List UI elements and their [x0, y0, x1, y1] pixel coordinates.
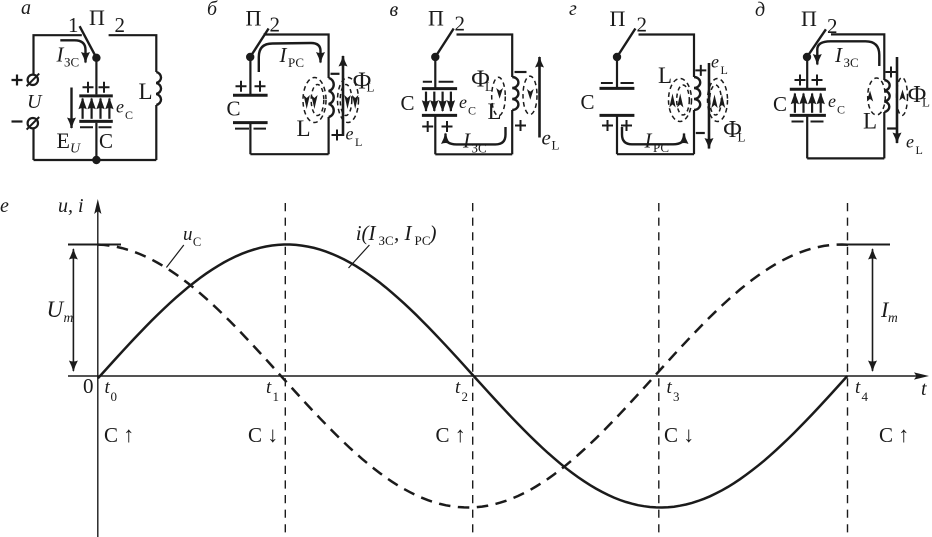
minus charges above top plate	[423, 81, 454, 83]
switch П blade (closed to 2)	[807, 29, 826, 57]
y-axis	[97, 210, 99, 537]
svg-text:e: e	[346, 124, 354, 144]
svg-text:e: e	[459, 92, 467, 112]
svg-text:e: e	[711, 52, 719, 72]
wire right lower	[155, 105, 157, 160]
svg-text:e: e	[116, 97, 124, 117]
svg-text:t: t	[855, 377, 861, 398]
svg-text:П: П	[801, 6, 817, 31]
svg-text:2: 2	[637, 13, 648, 37]
svg-text:L: L	[485, 79, 493, 94]
field arrows inside C (up)	[81, 99, 83, 119]
svg-text:m: m	[64, 310, 74, 325]
inductor L coil	[694, 77, 700, 110]
current curve i (solid sine)	[98, 245, 847, 508]
svg-text:t: t	[921, 378, 927, 400]
svg-text:ЗС: ЗС	[844, 55, 859, 70]
svg-text:РС: РС	[653, 140, 669, 155]
plus at coil top	[886, 67, 897, 78]
emf arrow EU (down)	[70, 88, 72, 129]
svg-text:С: С	[401, 91, 415, 115]
svg-text:Е: Е	[57, 128, 70, 153]
wire top-right (contact 2 to L)	[109, 35, 157, 72]
svg-text:1: 1	[273, 389, 280, 404]
wire capacitor to bottom	[95, 123, 97, 160]
svg-text:0: 0	[83, 374, 94, 398]
current arrow IРС (C up over to L)	[259, 43, 321, 72]
source terminal + (circle with slash)	[28, 75, 38, 85]
bottom junction node	[92, 156, 100, 164]
wire switch to capacitor	[249, 57, 251, 95]
svg-text:L: L	[367, 80, 375, 95]
svg-text:С: С	[193, 235, 201, 249]
svg-text:а: а	[21, 0, 31, 19]
svg-text:m: m	[888, 310, 898, 325]
wire capacitor to bottom	[249, 123, 251, 154]
svg-text:L: L	[139, 79, 153, 104]
svg-text:П: П	[89, 5, 105, 30]
svg-text:д: д	[755, 0, 765, 21]
capacitor C top plate	[79, 94, 113, 97]
svg-text:L: L	[922, 95, 930, 110]
svg-text:U: U	[47, 297, 65, 322]
capacitor C bottom plate	[233, 121, 268, 124]
current arrow IЗС (L back to C)	[817, 41, 879, 66]
plus at coil top	[695, 65, 706, 76]
inductor L coil	[156, 72, 161, 105]
svg-text:e: e	[542, 126, 551, 150]
flux arrows right (up)	[711, 95, 717, 109]
flux arrows left (up)	[669, 94, 675, 108]
svg-text:U: U	[27, 91, 43, 113]
switch П blade (closed to 2)	[435, 29, 453, 58]
Um amplitude tick	[68, 244, 121, 246]
svg-text:РС: РС	[415, 233, 431, 248]
svg-text:I: I	[834, 43, 843, 67]
svg-text:П: П	[610, 6, 626, 31]
source terminal − (circle with slash)	[28, 118, 38, 128]
inductor L coil	[884, 80, 889, 112]
capacitor C bottom plate	[422, 114, 457, 117]
flux ellipse left inner	[311, 85, 324, 116]
switch pivot node	[92, 54, 100, 62]
flux arrows left (down)	[304, 95, 310, 109]
flux ellipse right outer	[338, 78, 359, 123]
flux arrow left (down)	[496, 88, 503, 99]
voltage curve uC (dashed cosine)	[98, 245, 848, 508]
svg-text:е: е	[0, 195, 9, 217]
svg-text:t: t	[667, 377, 673, 398]
flux arrow right (down)	[527, 89, 534, 100]
capacitor C top plate	[790, 88, 826, 91]
capacitor C top plate	[422, 87, 457, 90]
minus at coil bottom	[887, 127, 896, 129]
wire top-left (to contact 1)	[34, 35, 82, 74]
svg-text:0: 0	[111, 389, 118, 404]
flux ellipse right inner	[710, 85, 722, 115]
switch П blade (closed to 2)	[250, 29, 268, 58]
wire right lower	[511, 110, 513, 154]
svg-text:С: С	[125, 108, 133, 122]
uC label pointer	[166, 245, 183, 268]
svg-text:t: t	[455, 377, 461, 398]
flux ellipse right outer	[708, 79, 728, 122]
minus charges above top plate	[601, 82, 634, 84]
minus at coil top	[515, 71, 527, 73]
i label pointer	[349, 245, 370, 268]
svg-text:П: П	[428, 6, 444, 31]
wire capacitor to bottom	[434, 115, 436, 154]
svg-text:С: С	[773, 92, 787, 116]
svg-text:С: С	[837, 103, 845, 117]
minus charges under bottom plate	[792, 121, 824, 123]
svg-text:I: I	[279, 43, 288, 67]
switch П blade	[80, 26, 97, 58]
wire left lower	[32, 129, 34, 160]
flux ellipse left outer	[303, 78, 326, 123]
svg-text:2: 2	[455, 12, 466, 36]
dashed timeline t3	[658, 203, 660, 535]
Im dimension arrow	[872, 249, 874, 310]
plus sign of source	[12, 75, 23, 86]
flux arrow left (up)	[867, 91, 873, 102]
svg-text:L: L	[916, 143, 923, 157]
wire bottom	[34, 159, 157, 161]
dashed timeline t1	[284, 203, 286, 535]
switch pivot node	[431, 53, 439, 61]
capacitor C top plate	[600, 87, 635, 90]
svg-text:L: L	[721, 63, 728, 77]
wire right lower	[693, 110, 695, 154]
capacitor C bottom plate	[600, 114, 635, 117]
flux ellipse right	[523, 76, 537, 114]
dashed timeline t4	[847, 203, 849, 535]
svg-text:L: L	[863, 109, 877, 134]
svg-text:г: г	[569, 0, 577, 20]
svg-text:С: С	[581, 90, 595, 114]
flux ellipse right inner	[340, 85, 352, 116]
flux arrow right (up)	[899, 90, 905, 101]
svg-text:1: 1	[68, 13, 79, 37]
switch pivot node	[803, 53, 811, 61]
switch П blade (closed to 2)	[617, 29, 635, 58]
wire top	[264, 35, 329, 79]
flux arrows right (down)	[344, 95, 350, 109]
capacitor C bottom plate	[790, 114, 826, 117]
plus at coil bottom	[332, 130, 343, 141]
svg-text:): )	[429, 221, 437, 245]
minus charges under bottom plate	[235, 128, 266, 130]
svg-text:2: 2	[115, 13, 126, 37]
wire bottom	[617, 153, 694, 155]
svg-text:e: e	[828, 91, 836, 111]
svg-text:I: I	[644, 129, 653, 153]
svg-text:i(I: i(I	[356, 221, 377, 245]
wire right lower	[883, 112, 885, 158]
svg-text:ЗС: ЗС	[472, 141, 487, 156]
flux ellipse left	[492, 77, 506, 115]
svg-text:ЗС: ЗС	[379, 233, 394, 248]
svg-text:3: 3	[673, 389, 680, 404]
capacitor C top plate	[233, 94, 268, 97]
switch pivot node	[246, 53, 254, 61]
plus charges under bottom plate	[422, 121, 452, 132]
svg-text:2: 2	[462, 389, 469, 404]
wire top	[639, 35, 695, 78]
wire switch to capacitor	[616, 57, 618, 88]
svg-text:ЗС: ЗС	[64, 55, 79, 70]
flux ellipse right	[897, 78, 908, 116]
wire switch to capacitor	[95, 58, 97, 95]
svg-text:П: П	[246, 6, 262, 31]
svg-text:2: 2	[270, 13, 281, 37]
Im amplitude tick	[845, 244, 890, 246]
svg-text:U: U	[70, 142, 81, 157]
capacitor C bottom plate	[79, 120, 113, 123]
wire capacitor to bottom	[806, 115, 808, 158]
svg-text:t: t	[266, 377, 272, 398]
field arrows inside C (up)	[794, 94, 796, 113]
svg-text:u: u	[183, 224, 193, 245]
inductor L coil	[329, 78, 334, 117]
x-axis t	[68, 375, 917, 377]
svg-text:б: б	[207, 0, 218, 20]
emf arrow eL (down)	[708, 63, 711, 149]
wire bottom	[250, 153, 328, 155]
plus charges under bottom plate	[602, 120, 632, 131]
current arrow IРС (C to L)	[622, 127, 684, 144]
emf arrow eL (down)	[896, 57, 899, 143]
wire bottom	[807, 157, 884, 159]
emf arrow eL (up)	[342, 56, 345, 136]
svg-text:I: I	[462, 129, 471, 153]
svg-text:L: L	[297, 116, 311, 141]
plus charges on top plate	[795, 75, 823, 86]
plus charges on top plate	[236, 81, 266, 92]
wire switch to capacitor	[434, 57, 436, 88]
svg-text:С ↑: С ↑	[104, 422, 134, 447]
svg-text:С ↓: С ↓	[664, 422, 694, 447]
svg-text:L: L	[552, 138, 560, 153]
current arrow IЗС (L back to C)	[446, 127, 506, 144]
svg-text:РС: РС	[288, 55, 304, 70]
plus at coil bottom	[515, 120, 526, 131]
flux ellipse left outer	[669, 79, 692, 122]
wire right lower	[328, 117, 330, 154]
plus charges on top plate	[83, 82, 110, 93]
Um dimension arrow	[72, 249, 74, 310]
wire bottom	[435, 153, 512, 155]
svg-text:e: e	[906, 132, 914, 152]
wire top	[457, 35, 513, 78]
switch pivot node	[613, 53, 621, 61]
minus charges under bottom plate	[80, 126, 112, 128]
svg-text:С ↑: С ↑	[879, 422, 909, 447]
current arrow IЗС	[60, 40, 85, 62]
flux ellipse left	[868, 78, 886, 115]
svg-text:С ↑: С ↑	[436, 422, 466, 447]
svg-text:С: С	[99, 129, 113, 153]
svg-text:u, i: u, i	[58, 195, 84, 217]
dashed timeline t2	[472, 203, 474, 535]
wire top	[831, 34, 884, 80]
inductor L coil	[512, 77, 518, 110]
svg-text:, I: , I	[394, 221, 413, 245]
svg-text:С: С	[227, 97, 241, 121]
wire switch to capacitor	[806, 57, 808, 88]
minus sign of source	[12, 120, 23, 122]
svg-text:L: L	[355, 135, 362, 149]
field arrows inside C (down)	[425, 92, 427, 111]
svg-text:в: в	[390, 0, 399, 21]
svg-text:С: С	[468, 104, 476, 118]
svg-text:4: 4	[862, 389, 869, 404]
minus at coil bottom	[696, 132, 705, 134]
svg-text:L: L	[738, 130, 746, 145]
emf arrow eL (up)	[538, 57, 541, 138]
svg-text:С ↓: С ↓	[248, 422, 278, 447]
flux ellipse left inner	[677, 85, 690, 115]
wire capacitor to bottom	[616, 115, 618, 154]
svg-text:L: L	[658, 63, 672, 88]
minus at coil top	[331, 73, 340, 75]
